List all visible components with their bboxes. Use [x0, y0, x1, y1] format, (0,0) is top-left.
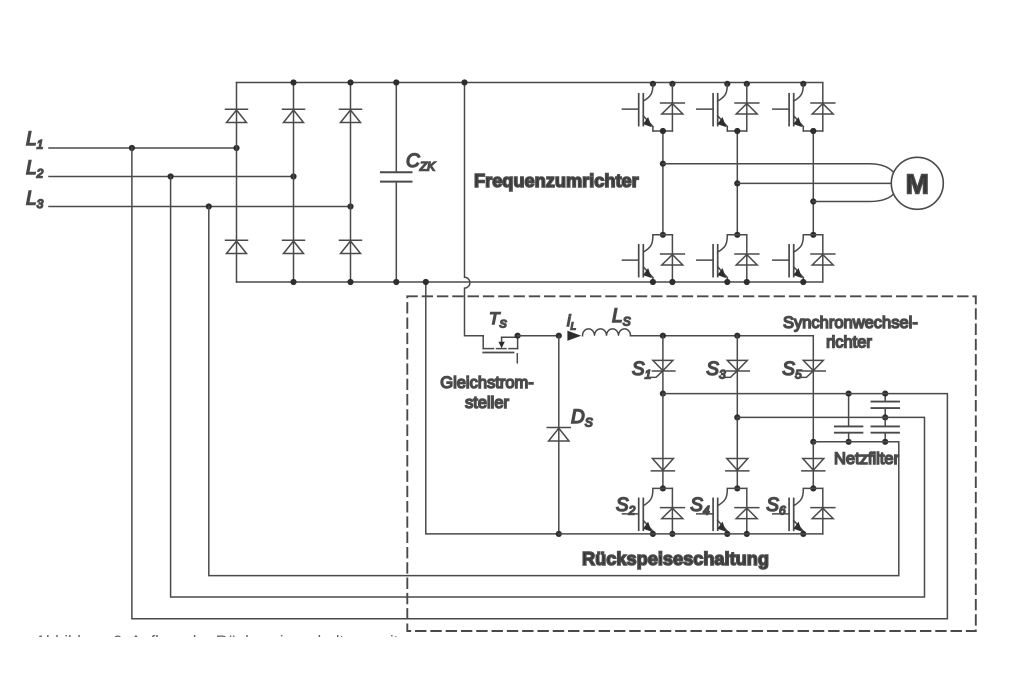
wire DC+ top bus — [237, 82, 823, 84]
junction motor phase 2 tap — [734, 180, 740, 186]
transistor T4 inverter lower IGBT symbol — [718, 235, 728, 252]
svg-text:iL: iL — [567, 313, 576, 333]
transistor T1 inverter upper IGBT symbol — [643, 84, 653, 101]
junction feedback phase tap 2 — [734, 414, 740, 420]
svg-text:M: M — [906, 169, 929, 200]
diode across S6 — [822, 488, 824, 534]
wire DC+ feed to chopper with crossover hop — [465, 83, 484, 336]
transistor S4 IGBT symbol — [718, 489, 728, 506]
wire sync leg 2 upper — [736, 336, 738, 418]
transistor T2 inverter lower emitter node — [652, 278, 654, 282]
junction S3 anode on top rail — [734, 333, 740, 339]
capacitor CZK — [395, 83, 397, 173]
transistor T4 inverter lower emitter node — [726, 278, 728, 282]
junction motor phase 3 tap — [810, 198, 816, 204]
wire motor phase 2 — [737, 182, 891, 184]
svg-text:Gleichstrom-: Gleichstrom- — [440, 374, 534, 392]
junction feedback phase tap 1 — [660, 391, 666, 397]
transistor T3 inverter upper collector node — [724, 81, 730, 87]
junction rectifier leg3 top bus — [347, 79, 353, 85]
junction CZK bottom bus — [393, 279, 399, 285]
transistor S4 collector node — [734, 485, 740, 491]
transistor S2 IGBT symbol — [643, 489, 653, 506]
wire feedback phase 2 to L2 — [171, 177, 925, 598]
junction DC+ feed top bus — [461, 79, 467, 85]
svg-text:L3: L3 — [26, 189, 44, 212]
diode across T5 inverter upper — [822, 84, 824, 131]
wire sync leg 1 upper — [662, 336, 664, 394]
transistor T5 inverter upper emitter node — [802, 127, 804, 131]
svg-text:S4: S4 — [690, 495, 710, 518]
transistor T2 inverter lower IGBT symbol — [643, 235, 653, 252]
wire feedback phase 3 to L3 — [209, 207, 899, 576]
wire DC- return to chopper bottom rail — [426, 282, 559, 534]
junction C2 top — [882, 391, 888, 397]
diode V2 rectifier upper — [283, 108, 305, 110]
enclosure Rueckspeiseschaltung dashed box — [407, 296, 976, 631]
transistor S2 emitter node — [652, 531, 654, 534]
diode across T3 inverter upper — [746, 84, 748, 131]
transistor T2 inverter lower collector node — [660, 232, 666, 238]
svg-text:DS: DS — [571, 407, 593, 430]
wire sync leg 3 middle — [812, 442, 814, 489]
wire TS source to DS anode — [518, 335, 559, 337]
junction rectifier leg2 bottom bus — [290, 279, 296, 285]
transistor S4 emitter node — [726, 531, 728, 534]
diode D1 sync series — [652, 459, 673, 471]
diode D3 sync series — [803, 459, 824, 471]
junction motor phase 1 tap — [660, 161, 666, 167]
svg-text:steller: steller — [465, 394, 510, 412]
thyristor S3 symbol — [727, 360, 747, 370]
transistor S6 collector node — [810, 485, 816, 491]
wire rectifier leg 2 — [293, 83, 295, 283]
wire motor phase 1 — [663, 164, 894, 173]
thyristor S1 symbol — [653, 360, 673, 370]
svg-text:Synchronwechsel-: Synchronwechsel- — [783, 314, 918, 332]
motor M1 circle — [891, 157, 943, 209]
junction feedback phase tap 3 — [810, 439, 816, 445]
junction rectifier leg2 top bus — [290, 79, 296, 85]
svg-text:TS: TS — [489, 309, 507, 331]
svg-text:S6: S6 — [766, 495, 786, 518]
junction L1 rectifier leg 1 — [233, 145, 239, 151]
diode V3 rectifier upper — [340, 108, 362, 110]
wire rectifier leg 1 — [236, 83, 238, 283]
inductor LS — [583, 329, 631, 336]
capacitor C3 netzfilter lower — [884, 417, 886, 426]
svg-text:S2: S2 — [616, 495, 636, 518]
transistor S2 collector node — [660, 485, 666, 491]
transistor TS chopper MOSFET — [502, 336, 518, 338]
junction DC- return bottom bus — [423, 279, 429, 285]
svg-text:L2: L2 — [26, 158, 44, 181]
diode D2 sync series — [727, 459, 748, 471]
junction L1 feedback tap — [129, 145, 135, 151]
svg-text:Netzfilter: Netzfilter — [834, 450, 900, 468]
diode DS — [558, 336, 560, 534]
transistor T6 inverter lower IGBT symbol — [794, 235, 804, 252]
wire inverter leg 1 midpoint — [662, 131, 664, 235]
junction C2 mid — [882, 414, 888, 420]
wire rectifier leg 3 — [350, 83, 352, 283]
current arrow iL — [567, 331, 581, 341]
wire inverter leg 2 midpoint — [736, 131, 738, 235]
transistor T5 inverter upper collector node — [800, 81, 806, 87]
wire sync leg 1 middle — [662, 394, 664, 489]
junction L2 rectifier leg 2 — [290, 173, 296, 179]
transistor T6 inverter lower collector node — [810, 232, 816, 238]
wire chopper bottom rail — [559, 533, 823, 535]
transistor T1 inverter upper emitter node — [652, 127, 654, 131]
wire sync leg 3 upper — [812, 336, 814, 442]
junction C3 bottom — [882, 439, 888, 445]
junction L3 feedback tap — [206, 203, 212, 209]
transistor T3 inverter upper IGBT symbol — [718, 84, 728, 101]
junction rectifier leg3 bottom bus — [347, 279, 353, 285]
transistor S6 IGBT symbol — [794, 489, 804, 506]
wire LS to sync inverter top rail — [631, 335, 814, 337]
junction S1 anode on top rail — [660, 333, 666, 339]
diode V1 rectifier upper — [226, 108, 248, 110]
svg-text:Frequenzumrichter: Frequenzumrichter — [474, 171, 639, 191]
transistor T3 inverter upper emitter node — [726, 127, 728, 131]
svg-text:LS: LS — [612, 306, 631, 329]
junction DS cathode bottom rail — [556, 531, 562, 537]
diode across S2 — [671, 488, 673, 534]
diode V6 rectifier lower — [340, 239, 362, 241]
junction C1 top — [846, 391, 852, 397]
svg-text:L1: L1 — [26, 129, 43, 152]
junction C1 bottom — [846, 439, 852, 445]
svg-text:S1: S1 — [632, 359, 651, 382]
wire feedback phase 1 to L1 — [132, 148, 948, 619]
thyristor S5 symbol — [803, 360, 823, 370]
diode V4 rectifier lower — [226, 239, 248, 241]
junction TS source node — [515, 333, 521, 339]
wire sync leg 2 middle — [736, 417, 738, 488]
diode V5 rectifier lower — [283, 239, 305, 241]
capacitor C1 netzfilter — [848, 394, 850, 427]
svg-text:richter: richter — [826, 334, 872, 352]
transistor T6 inverter lower emitter node — [802, 278, 804, 282]
svg-text:S5: S5 — [782, 359, 802, 382]
svg-text:Rückspeiseschaltung: Rückspeiseschaltung — [582, 549, 769, 569]
diode across S4 — [746, 488, 748, 534]
junction L3 rectifier leg 3 — [347, 203, 353, 209]
svg-text:Abbildung 2: Aufbau der Rücksp: Abbildung 2: Aufbau der Rückspeiseschalt… — [35, 633, 399, 651]
transistor T4 inverter lower collector node — [734, 232, 740, 238]
svg-text:S3: S3 — [706, 359, 726, 382]
capacitor C2 netzfilter upper — [884, 394, 886, 402]
diode across T1 inverter upper — [671, 84, 673, 131]
junction L2 feedback tap — [168, 173, 174, 179]
wire inverter leg 3 midpoint — [812, 131, 814, 235]
diode across T6 inverter lower — [822, 235, 824, 282]
diode across T4 inverter lower — [746, 235, 748, 282]
diode across T2 inverter lower — [671, 235, 673, 282]
wire DC- bottom bus — [237, 281, 823, 283]
wire motor phase 3 — [813, 194, 893, 201]
transistor S6 emitter node — [802, 531, 804, 534]
transistor T5 inverter upper IGBT symbol — [794, 84, 804, 101]
junction CZK top bus — [393, 79, 399, 85]
transistor T1 inverter upper collector node — [650, 81, 656, 87]
svg-text:CZK: CZK — [406, 151, 436, 174]
junction DS anode node — [556, 333, 562, 339]
